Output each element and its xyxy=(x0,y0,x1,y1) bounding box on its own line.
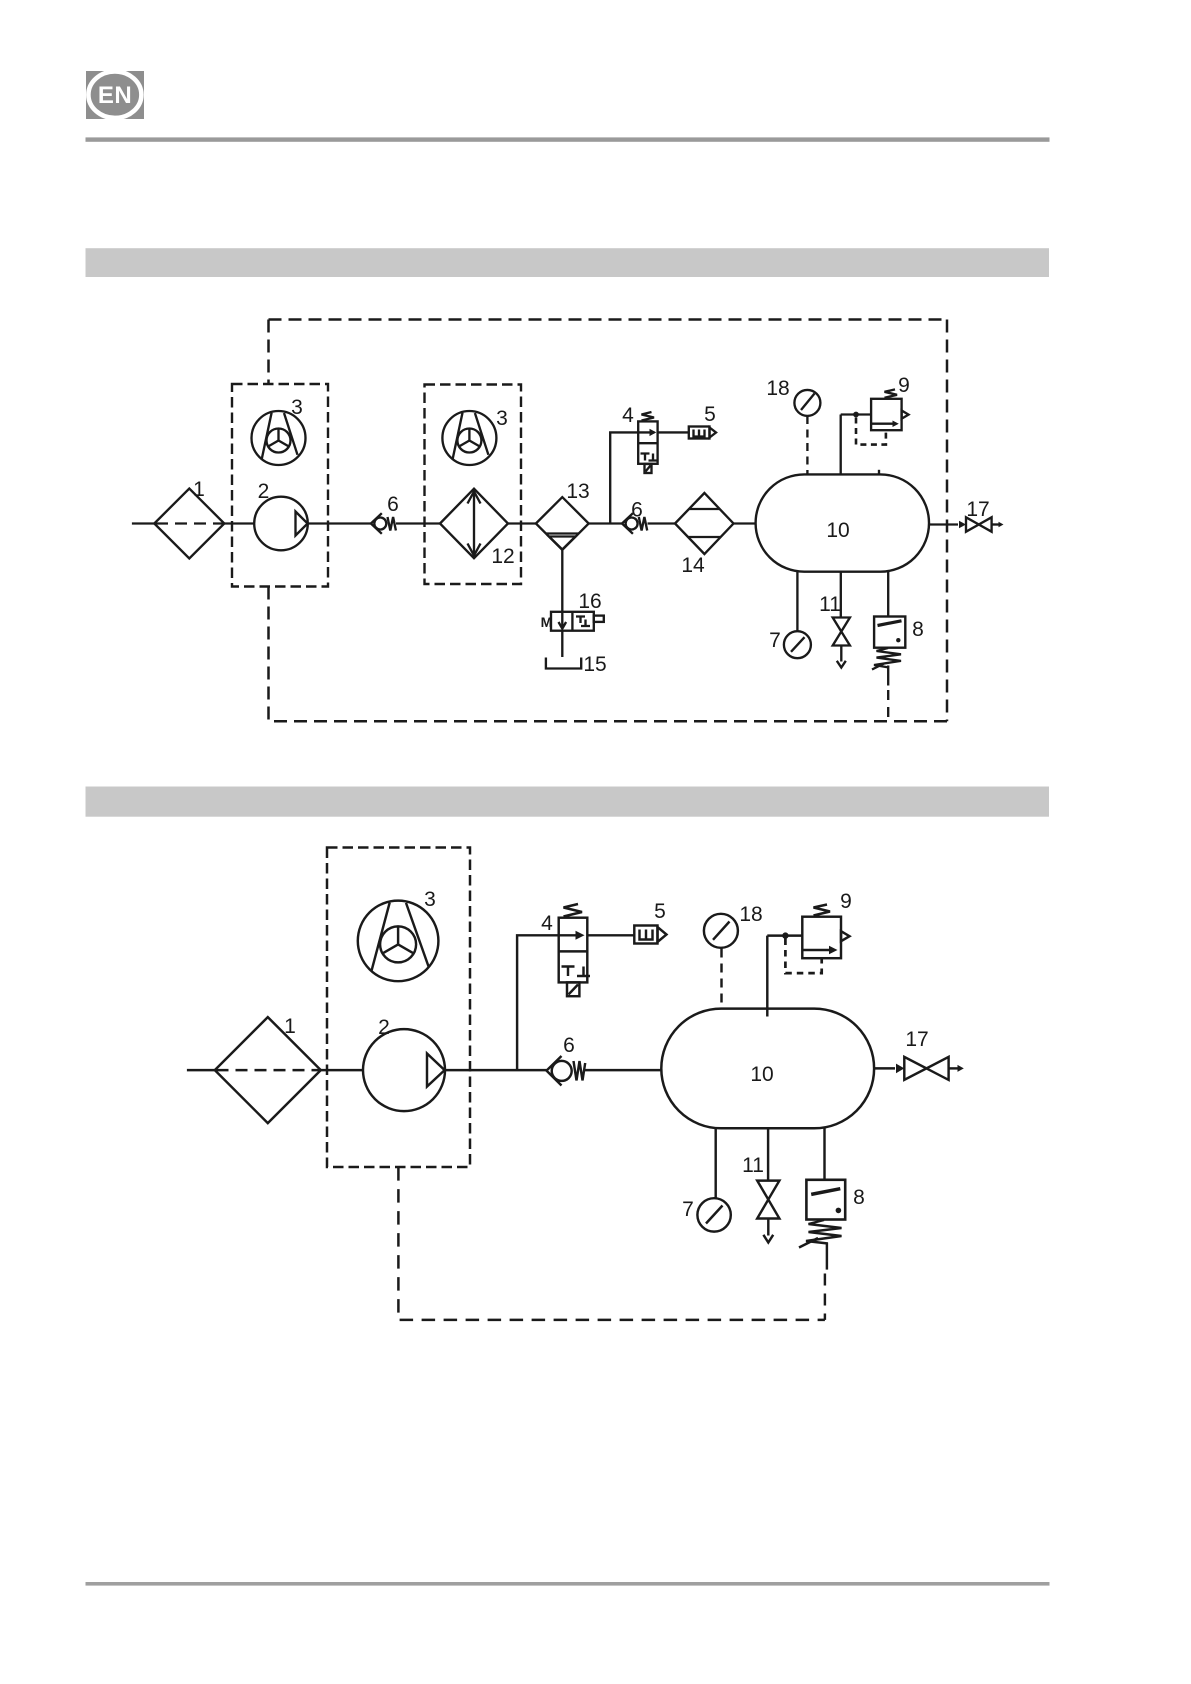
manual drain valve 11 (diagram 1) xyxy=(833,618,850,668)
wire tank to drain valve 11 xyxy=(840,572,842,618)
safety valve 8 (diagram 2) xyxy=(799,1180,845,1270)
svg-text:18: 18 xyxy=(766,377,789,400)
svg-text:11: 11 xyxy=(742,1154,764,1177)
wire filter1 to pump xyxy=(224,522,254,524)
shut-off valve 17 (diagram 2) xyxy=(896,1057,964,1080)
dashed pilot loop of switch 9 (diagram 2) xyxy=(785,939,821,974)
outlet wire to valve 17 (diagram 2) xyxy=(874,1067,895,1069)
svg-text:2: 2 xyxy=(258,480,270,503)
svg-text:16: 16 xyxy=(578,590,601,613)
wire check valve to tank (diagram 2) xyxy=(585,1069,661,1071)
wire 6b to filter 14 xyxy=(648,522,676,524)
pressure gauge 7 (diagram 1) xyxy=(784,631,811,658)
wire inlet (diagram 2) xyxy=(187,1069,215,1071)
drain wire below valve 16 xyxy=(561,631,563,657)
svg-text:17: 17 xyxy=(966,498,989,521)
wire pump to check valve (diagram 2) xyxy=(445,1069,547,1071)
wire valve 4 to muffler 5 xyxy=(658,431,689,433)
svg-text:14: 14 xyxy=(681,554,705,577)
svg-text:M: M xyxy=(541,614,553,630)
dashed wire gauge 18 to tank (diagram 2) xyxy=(720,949,722,1009)
drain sump 15 (diagram 1) xyxy=(546,658,581,669)
dryer unit dashed box (diagram 1) xyxy=(425,385,522,585)
svg-text:9: 9 xyxy=(898,374,910,397)
svg-text:3: 3 xyxy=(424,888,436,911)
pressure gauge 7 (diagram 2) xyxy=(697,1198,730,1231)
svg-text:7: 7 xyxy=(682,1198,694,1221)
filter 1 (diagram 1) xyxy=(154,489,224,559)
section heading bar 2 xyxy=(86,787,1050,817)
heat exchanger 12 (diagram 1) xyxy=(440,489,508,559)
svg-text:9: 9 xyxy=(840,890,852,913)
pressure gauge 18 (diagram 1) xyxy=(794,390,820,416)
wire tank to safety valve 8 xyxy=(887,572,889,617)
dashed wire safety valve 8 to enclosure edge xyxy=(887,690,889,721)
wire 13 to junction and check valve 6b xyxy=(589,522,622,524)
fan/motor 3 (diagram 2) xyxy=(358,901,439,982)
svg-text:6: 6 xyxy=(387,493,399,516)
pilot riser wire to valve 4 (diagram 2) xyxy=(517,935,559,1070)
pressure gauge 18 (diagram 2) xyxy=(704,914,738,948)
svg-text:1: 1 xyxy=(193,478,205,501)
wire inlet (diagram 1) xyxy=(132,522,154,524)
svg-text:10: 10 xyxy=(750,1063,773,1086)
compressor unit dashed box (diagram 1) xyxy=(232,384,328,587)
svg-text:7: 7 xyxy=(769,629,781,652)
svg-text:EN: EN xyxy=(98,82,132,109)
svg-text:4: 4 xyxy=(541,912,553,935)
svg-text:8: 8 xyxy=(912,618,924,641)
wire switch 9 to tank with junction (diagram 2) xyxy=(767,932,802,1016)
pump/compressor 2 (diagram 1) xyxy=(254,497,308,551)
unloader valve 4 (diagram 2) xyxy=(559,904,590,996)
svg-text:6: 6 xyxy=(563,1034,575,1057)
header rule xyxy=(86,137,1050,141)
wire tank to drain valve 11 (diagram 2) xyxy=(767,1128,769,1180)
svg-text:13: 13 xyxy=(566,480,589,503)
receiver tank 10 (diagram 2) xyxy=(661,1009,874,1129)
wire 12 to filter 13 xyxy=(508,522,536,524)
svg-text:8: 8 xyxy=(853,1186,865,1209)
outlet wire to valve 17 xyxy=(929,523,958,525)
pressure switch 9 (diagram 1) xyxy=(871,389,908,430)
wire 14 to receiver xyxy=(734,522,756,524)
svg-text:18: 18 xyxy=(739,903,762,926)
svg-text:2: 2 xyxy=(378,1016,390,1039)
svg-text:10: 10 xyxy=(826,519,849,542)
dashed return path from compressor box (diagram 2) xyxy=(398,1167,825,1320)
svg-text:17: 17 xyxy=(905,1028,928,1051)
svg-text:5: 5 xyxy=(654,900,666,923)
pilot riser wire to valve 4 xyxy=(610,432,638,523)
section heading bar 1 xyxy=(86,248,1050,277)
filter separator 13 (diagram 1) xyxy=(536,497,589,550)
muffler 5 (diagram 2) xyxy=(634,926,666,944)
pressure switch 9 (diagram 2) xyxy=(802,905,849,959)
drain wire 13 to valve 16 xyxy=(561,550,563,612)
shut-off valve 17 (diagram 1) xyxy=(959,517,1004,531)
compressor unit dashed box (diagram 2) xyxy=(327,848,470,1168)
safety valve 8 (diagram 1) xyxy=(872,617,905,686)
svg-text:5: 5 xyxy=(704,403,716,426)
filter 1 (diagram 2) xyxy=(215,1017,321,1123)
svg-text:11: 11 xyxy=(819,593,841,616)
dashed wire gauge 18 to tank xyxy=(806,416,808,474)
EN language badge xyxy=(86,71,144,119)
svg-text:1: 1 xyxy=(284,1015,296,1038)
drain valve 16 (diagram 1) xyxy=(551,612,604,631)
wire tank to gauge 7 xyxy=(796,572,798,631)
check valve 6b (diagram 1) xyxy=(622,513,647,534)
svg-text:15: 15 xyxy=(583,653,606,676)
check valve 6 (diagram 2) xyxy=(547,1056,586,1086)
svg-text:3: 3 xyxy=(496,407,508,430)
wire filter to pump (diagram 2) xyxy=(321,1069,363,1071)
fan/motor 3 (compressor, diagram 1) xyxy=(252,411,306,465)
dashed wire safety valve 8 down (diagram 2) xyxy=(824,1274,826,1320)
footer rule xyxy=(86,1582,1050,1586)
wire pump to check valve 6a xyxy=(308,522,371,524)
svg-text:3: 3 xyxy=(291,396,303,419)
dashed pilot loop of switch 9 xyxy=(856,418,886,445)
muffler 5 (diagram 1) xyxy=(689,427,716,439)
wire tank to safety valve 8 (diagram 2) xyxy=(823,1128,825,1180)
check valve 6a (diagram 1) xyxy=(371,513,396,534)
adsorber filter 14 (diagram 1) xyxy=(675,493,734,554)
tank top stub xyxy=(878,470,880,475)
wire tank to gauge 7 (diagram 2) xyxy=(714,1128,716,1198)
svg-text:6: 6 xyxy=(631,499,643,522)
dashed system enclosure box (diagram 1) xyxy=(269,320,948,722)
svg-text:4: 4 xyxy=(622,404,634,427)
manual drain valve 11 (diagram 2) xyxy=(757,1181,779,1243)
wire switch 9 to tank with junction xyxy=(841,412,871,475)
wire 6a to heat exchanger xyxy=(396,522,440,524)
pump/compressor 2 (diagram 2) xyxy=(363,1029,445,1111)
unloader valve 4 (diagram 1) xyxy=(638,412,657,473)
fan/motor 3 (dryer, diagram 1) xyxy=(442,411,496,465)
receiver tank 10 (diagram 1) xyxy=(756,474,929,571)
svg-text:12: 12 xyxy=(491,545,514,568)
wire valve 4 to muffler 5 (diagram 2) xyxy=(587,934,634,936)
